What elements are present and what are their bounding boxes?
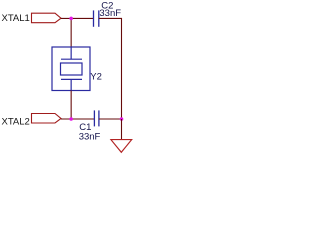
junction bbox=[69, 17, 73, 21]
junction bbox=[120, 117, 124, 121]
wire crystal bottom to XTAL2 net bbox=[70, 91, 72, 120]
wire C2 to right vertical bbox=[99, 18, 122, 119]
wire to ground bbox=[121, 119, 123, 140]
junction bbox=[69, 117, 73, 121]
port XTAL2 bbox=[32, 114, 62, 124]
ground bbox=[111, 140, 132, 153]
capacitor C1 bbox=[79, 110, 101, 142]
wire to crystal top bbox=[70, 18, 72, 47]
svg-text:XTAL2: XTAL2 bbox=[2, 117, 30, 128]
capacitor C2 bbox=[94, 0, 122, 27]
crystal Y2 bbox=[52, 47, 102, 91]
svg-text:Y2: Y2 bbox=[90, 72, 102, 83]
port XTAL1 bbox=[32, 13, 62, 23]
wire C1 to right vertical bbox=[99, 118, 122, 120]
wire XTAL2 to C1 bbox=[61, 118, 94, 120]
svg-text:XTAL1: XTAL1 bbox=[2, 13, 30, 24]
svg-text:33nF: 33nF bbox=[79, 131, 101, 142]
wire XTAL1 to C2 bbox=[61, 17, 93, 19]
svg-text:33nF: 33nF bbox=[99, 8, 121, 19]
